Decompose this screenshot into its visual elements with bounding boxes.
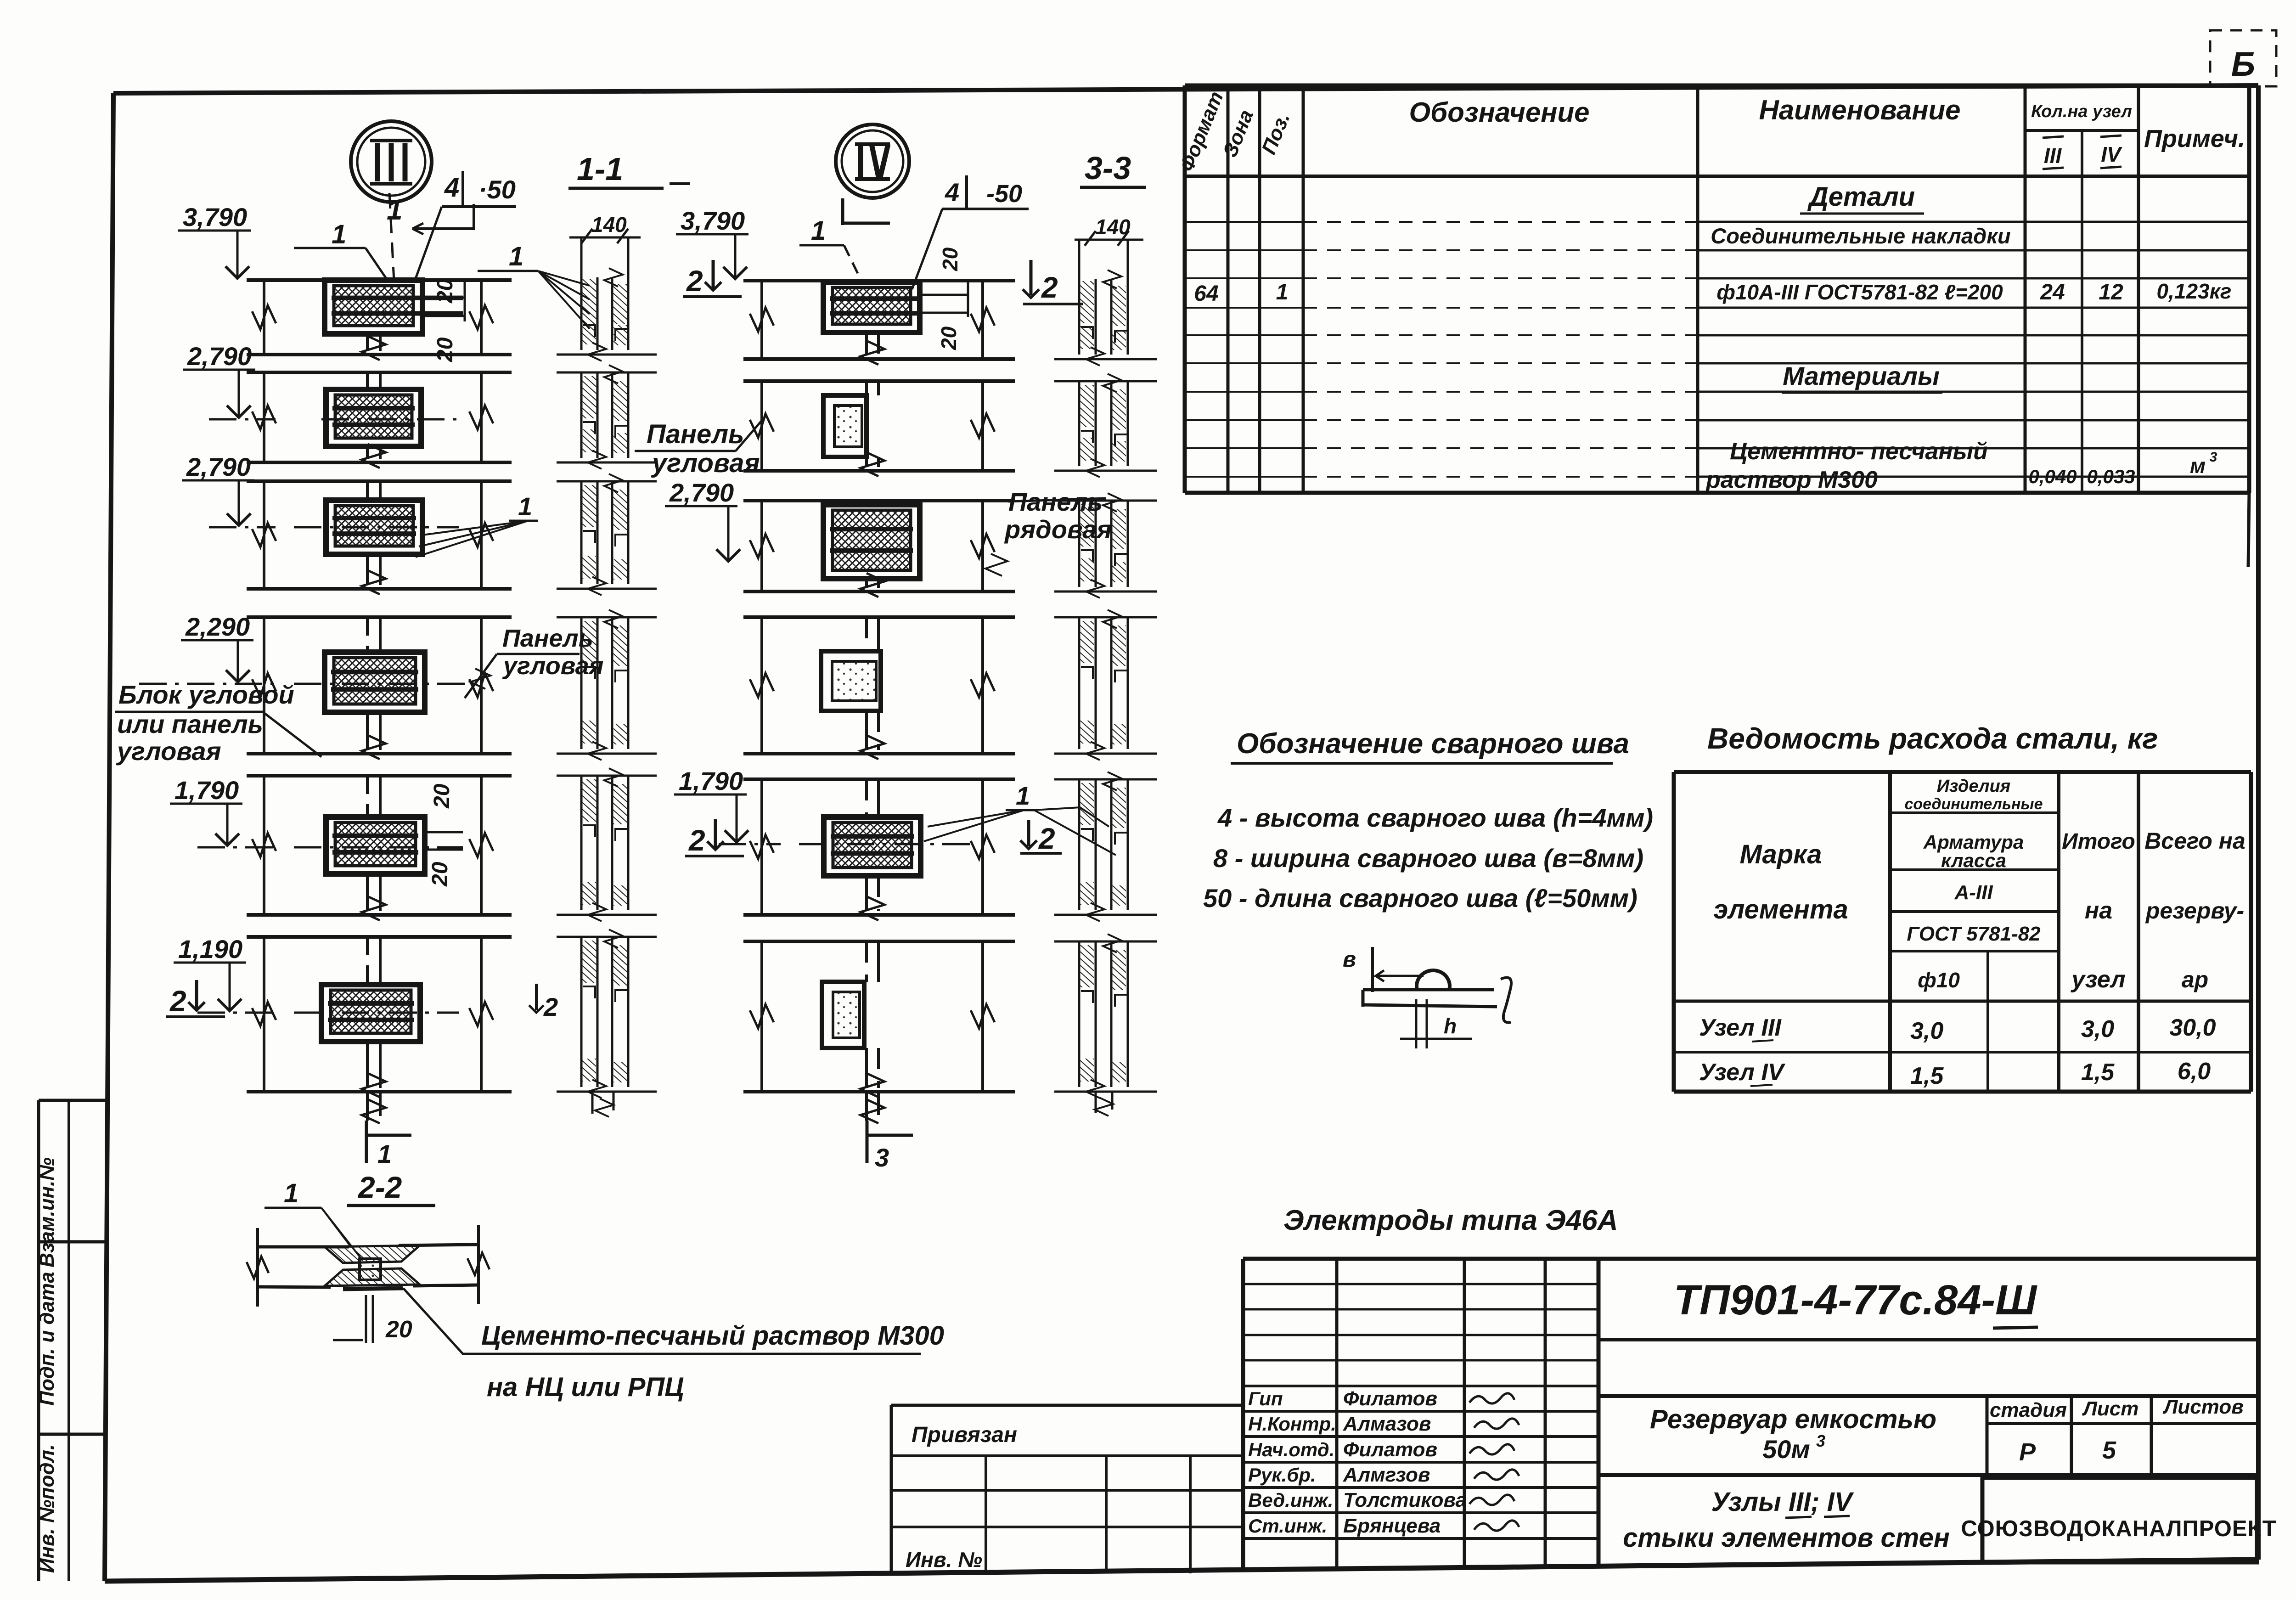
svg-text:2,790: 2,790	[187, 342, 252, 371]
svg-text:20: 20	[428, 862, 452, 887]
node III joint J1 (welded joint detail, hatched)	[325, 280, 422, 334]
svg-text:Алмгзов: Алмгзов	[1343, 1464, 1430, 1486]
node IV joint J4 (mortar joint detail)	[821, 651, 881, 711]
svg-text:А-III: А-III	[1954, 881, 1993, 904]
svg-text:1,190: 1,190	[178, 935, 242, 963]
svg-text:0,040: 0,040	[2028, 466, 2077, 487]
svg-text:ГОСТ 5781-82: ГОСТ 5781-82	[1907, 923, 2041, 945]
svg-text:3-3: 3-3	[1085, 150, 1131, 186]
svg-text:Толстикова: Толстикова	[1343, 1489, 1467, 1511]
svg-text:Б: Б	[2231, 45, 2255, 83]
svg-text:Панель: Панель	[647, 419, 744, 449]
svg-text:СОЮЗВОДОКАНАЛПРОЕКТ: СОЮЗВОДОКАНАЛПРОЕКТ	[1961, 1516, 2276, 1541]
svg-text:Листов: Листов	[2162, 1396, 2244, 1418]
svg-text:3,790: 3,790	[183, 203, 247, 231]
svg-text:1: 1	[1276, 280, 1289, 304]
svg-text:в: в	[1343, 947, 1356, 972]
node III joint J6 (welded joint detail, hatched)	[321, 985, 420, 1042]
svg-text:Изделия: Изделия	[1937, 777, 2011, 796]
node IV joint J5 (welded joint detail, hatched)	[824, 817, 921, 876]
node III joint J2 (welded joint detail, hatched)	[326, 389, 421, 446]
svg-text:Кол.на узел: Кол.на узел	[2031, 102, 2132, 121]
svg-text:4: 4	[444, 173, 459, 203]
svg-text:Р: Р	[2019, 1438, 2036, 1466]
svg-text:0,033: 0,033	[2087, 466, 2135, 487]
svg-text:угловая: угловая	[651, 448, 760, 478]
svg-text:2: 2	[686, 265, 703, 298]
svg-text:Привязан: Привязан	[912, 1423, 1017, 1447]
right side 2 marks node IV	[1030, 260, 1033, 295]
svg-text:2-2: 2-2	[357, 1170, 402, 1204]
svg-text:8 - ширина сварного шва (в=8мм: 8 - ширина сварного шва (в=8мм)	[1213, 844, 1643, 873]
svg-text:Блок угловой: Блок угловой	[118, 680, 294, 709]
svg-text:Вед.инж.: Вед.инж.	[1248, 1489, 1333, 1511]
node IV seam tail and section mark 3 bottom	[865, 1092, 868, 1121]
design institute box	[1982, 1478, 2257, 1562]
node IV vertical seam (dashed)	[865, 332, 868, 355]
svg-text:1: 1	[1016, 781, 1030, 810]
svg-text:30,0: 30,0	[2169, 1014, 2216, 1041]
node IV wall bands	[743, 279, 1015, 282]
node III joint J3 (welded joint detail, hatched)	[326, 500, 422, 554]
svg-text:2: 2	[1041, 271, 1058, 304]
svg-text:III: III	[2044, 144, 2062, 168]
svg-text:50 - длина сварного шва (ℓ=50м: 50 - длина сварного шва (ℓ=50мм)	[1203, 884, 1638, 913]
svg-text:Марка: Марка	[1739, 839, 1822, 869]
steel consumption table	[1672, 772, 1676, 1092]
svg-text:Обозначение сварного шва: Обозначение сварного шва	[1237, 728, 1629, 760]
detail 2-2 wall plan	[258, 1245, 349, 1249]
svg-text:Н.Контр.: Н.Контр.	[1248, 1413, 1336, 1435]
node III seam tail and section mark 1 bottom	[366, 1092, 369, 1121]
svg-text:3: 3	[2210, 450, 2217, 465]
svg-text:2,790: 2,790	[186, 452, 251, 481]
svg-text:2,290: 2,290	[185, 612, 250, 641]
svg-text:Алмазов: Алмазов	[1343, 1413, 1431, 1435]
svg-text:Резервуар емкостью: Резервуар емкостью	[1650, 1404, 1936, 1434]
svg-text:3,0: 3,0	[2081, 1016, 2114, 1042]
parts list table	[1183, 85, 1187, 493]
node III vertical seam	[366, 334, 369, 351]
svg-text:0,123кг: 0,123кг	[2157, 279, 2232, 303]
svg-text:Рук.бр.: Рук.бр.	[1248, 1464, 1316, 1486]
svg-text:20: 20	[938, 247, 962, 271]
svg-text:IV: IV	[2101, 142, 2122, 166]
node III wall bands	[247, 278, 512, 282]
svg-text:Брянцева: Брянцева	[1343, 1515, 1441, 1537]
left margin stamp boxes	[37, 1100, 40, 1581]
svg-text:20: 20	[433, 337, 457, 362]
sheet outer frame	[113, 85, 2258, 93]
svg-text:1,5: 1,5	[2081, 1059, 2115, 1086]
svg-text:Материалы: Материалы	[1783, 361, 1940, 390]
svg-text:Всего на: Всего на	[2144, 828, 2245, 854]
svg-text:2,790: 2,790	[669, 478, 734, 507]
svg-text:Электроды типа Э46А: Электроды типа Э46А	[1283, 1205, 1618, 1236]
svg-text:20: 20	[433, 278, 457, 304]
svg-text:Гип: Гип	[1248, 1388, 1283, 1409]
svg-text:·50: ·50	[478, 175, 516, 204]
svg-text:Лист: Лист	[2082, 1397, 2139, 1420]
svg-text:Подп. и дата: Подп. и дата	[36, 1272, 58, 1405]
svg-text:20: 20	[385, 1316, 412, 1343]
svg-text:1: 1	[377, 1139, 392, 1168]
svg-text:h: h	[1444, 1014, 1457, 1038]
svg-text:Узел IV: Узел IV	[1699, 1059, 1786, 1086]
svg-text:12: 12	[2099, 280, 2123, 304]
title block right part	[1598, 1257, 2257, 1261]
svg-text:Панель: Панель	[502, 625, 593, 652]
svg-text:3: 3	[875, 1143, 889, 1172]
svg-text:Филатов: Филатов	[1343, 1438, 1437, 1461]
svg-text:2: 2	[169, 985, 186, 1018]
svg-text:1-1: 1-1	[577, 151, 623, 187]
svg-text:64: 64	[1194, 282, 1218, 306]
svg-text:Инв. №: Инв. №	[906, 1548, 982, 1572]
node III centerlines	[209, 418, 276, 421]
svg-text:Цементо-песчаный раствор М300: Цементо-песчаный раствор М300	[481, 1321, 944, 1351]
svg-text:узел: узел	[2070, 966, 2125, 993]
svg-text:резерву-: резерву-	[2145, 898, 2244, 924]
node III circle callout	[351, 121, 432, 202]
node IV joint J6 (mortar joint detail)	[822, 982, 864, 1048]
section corner mark above node IV	[841, 198, 844, 225]
title block small table	[1241, 1259, 1245, 1571]
node III joint J5 (welded joint detail, hatched)	[326, 817, 425, 874]
svg-text:4: 4	[945, 178, 959, 207]
svg-text:Ст.инж.: Ст.инж.	[1248, 1515, 1327, 1537]
detail 2-2 dim 20	[365, 1295, 367, 1343]
svg-text:3: 3	[1816, 1431, 1825, 1450]
svg-text:Итого: Итого	[2062, 829, 2135, 854]
svg-text:Обозначение: Обозначение	[1409, 97, 1589, 128]
svg-text:1,790: 1,790	[679, 766, 743, 795]
svg-text:ар: ар	[2182, 967, 2208, 992]
svg-text:элемента: элемента	[1713, 895, 1848, 924]
svg-text:Цементно- песчаный: Цементно- песчаный	[1730, 438, 1988, 465]
svg-text:Инв. №подл.: Инв. №подл.	[36, 1444, 58, 1573]
svg-text:Узлы III; IV: Узлы III; IV	[1711, 1487, 1854, 1517]
mortar leader note	[403, 1288, 921, 1354]
svg-text:на: на	[2085, 897, 2112, 924]
svg-text:Детали: Детали	[1807, 182, 1915, 212]
svg-text:Ведомость расхода стали, кг: Ведомость расхода стали, кг	[1707, 722, 2158, 755]
svg-text:ТП901-4-77с.84-Ш: ТП901-4-77с.84-Ш	[1674, 1277, 2037, 1324]
svg-text:4 - высота сварного шва (h=4мм: 4 - высота сварного шва (h=4мм)	[1217, 803, 1653, 832]
svg-text:или панель: или панель	[117, 710, 263, 738]
svg-text:раствор М300: раствор М300	[1705, 467, 1878, 493]
svg-text:50м: 50м	[1762, 1435, 1810, 1464]
svg-text:угловая: угловая	[116, 737, 221, 766]
small 2 mark right of node III band6	[535, 984, 538, 1010]
svg-text:м: м	[2190, 454, 2206, 478]
svg-text:Взам.ин.№: Взам.ин.№	[36, 1157, 58, 1268]
svg-text:Примеч.: Примеч.	[2144, 125, 2245, 152]
svg-text:2: 2	[688, 824, 705, 857]
svg-text:ф10: ф10	[1918, 968, 1960, 992]
svg-text:140: 140	[591, 213, 627, 237]
svg-text:2: 2	[543, 992, 558, 1021]
title block left extension	[890, 1405, 893, 1574]
svg-text:1: 1	[284, 1178, 298, 1208]
svg-text:соединительные: соединительные	[1904, 795, 2043, 813]
node IV circle callout	[836, 124, 909, 198]
svg-text:Филатов: Филатов	[1343, 1387, 1437, 1410]
svg-text:3,790: 3,790	[681, 206, 745, 235]
svg-text:2: 2	[1038, 822, 1055, 855]
svg-text:3,0: 3,0	[1910, 1018, 1943, 1044]
svg-text:6,0: 6,0	[2178, 1058, 2211, 1085]
svg-text:5: 5	[2102, 1437, 2116, 1464]
svg-text:20: 20	[430, 783, 454, 809]
node III joint J4 (welded joint detail, hatched)	[325, 652, 425, 712]
svg-text:24: 24	[2040, 280, 2065, 304]
svg-text:1: 1	[332, 220, 346, 249]
node IV joint J3 (welded joint detail, hatched)	[823, 505, 920, 579]
svg-text:1: 1	[518, 492, 532, 521]
svg-text:стадия: стадия	[1990, 1399, 2067, 1421]
svg-text:1: 1	[509, 242, 523, 271]
svg-text:Соединительные накладки: Соединительные накладки	[1711, 224, 2010, 248]
svg-text:стыки элементов стен: стыки элементов стен	[1623, 1523, 1950, 1553]
page number box "Б"	[2210, 30, 2276, 86]
svg-text:-50: -50	[986, 180, 1022, 208]
node IV joint J1 (welded joint detail, hatched)	[823, 282, 920, 332]
svg-text:1,790: 1,790	[174, 776, 239, 805]
svg-text:Узел III: Узел III	[1699, 1014, 1782, 1041]
detail 2-2 joint: mortar trapezoids and key	[325, 1245, 420, 1263]
node IV joint J2 (mortar joint detail)	[823, 395, 867, 457]
svg-text:1,5: 1,5	[1910, 1063, 1944, 1089]
svg-text:ф10А-III ГОСТ5781-82 ℓ=200: ф10А-III ГОСТ5781-82 ℓ=200	[1716, 280, 2003, 304]
svg-text:20: 20	[937, 326, 961, 350]
svg-text:на НЦ или РПЦ: на НЦ или РПЦ	[487, 1372, 684, 1402]
svg-text:1: 1	[811, 216, 826, 246]
svg-text:Нач.отд.: Нач.отд.	[1248, 1439, 1334, 1460]
svg-text:класса: класса	[1941, 850, 2006, 871]
node IV centerlines	[719, 843, 781, 845]
svg-text:Наименование: Наименование	[1759, 95, 1960, 125]
